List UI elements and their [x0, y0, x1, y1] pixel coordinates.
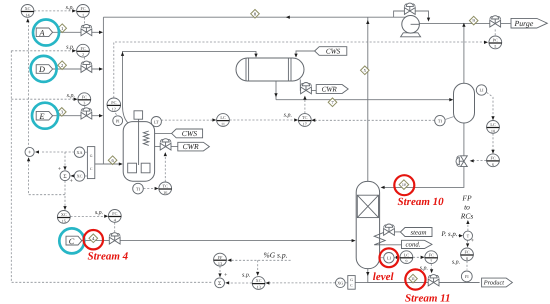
svg-text:Stream 11: Stream 11 — [405, 293, 451, 304]
svg-text:G: G — [90, 154, 93, 158]
svg-text:+: + — [57, 166, 61, 172]
svg-text:+: + — [69, 179, 73, 185]
svg-text:LT: LT — [154, 119, 159, 124]
svg-text:to: to — [464, 203, 470, 212]
svg-text:C: C — [69, 237, 75, 246]
svg-text:15: 15 — [62, 218, 66, 223]
svg-text:Stream 10: Stream 10 — [398, 196, 445, 208]
svg-text:PC: PC — [493, 38, 498, 43]
svg-text:+: + — [470, 238, 474, 244]
svg-text:FF: FF — [218, 255, 223, 260]
svg-text:XC: XC — [25, 6, 31, 11]
svg-text:Σ: Σ — [63, 174, 66, 180]
svg-text:%G s.p.: %G s.p. — [264, 250, 288, 259]
svg-text:PC: PC — [111, 100, 116, 105]
svg-text:LC: LC — [220, 115, 226, 120]
svg-text:TC: TC — [163, 184, 169, 189]
svg-text:FC: FC — [80, 6, 85, 11]
svg-text:13: 13 — [218, 261, 222, 266]
svg-text:s.p.: s.p. — [242, 272, 250, 278]
svg-text:7: 7 — [430, 259, 432, 264]
svg-text:3: 3 — [83, 101, 85, 106]
svg-text:E: E — [38, 112, 44, 121]
svg-text:D: D — [38, 65, 45, 74]
svg-text:A: A — [38, 29, 45, 38]
svg-text:XC: XC — [61, 212, 67, 217]
svg-text:G: G — [350, 278, 353, 282]
svg-text:RCs: RCs — [460, 211, 474, 220]
svg-text:10: 10 — [491, 128, 495, 133]
svg-text:8: 8 — [466, 256, 468, 261]
svg-text:XA: XA — [76, 150, 82, 155]
svg-text:C: C — [350, 284, 353, 288]
svg-text:LC: LC — [404, 252, 410, 257]
svg-text:FC: FC — [112, 211, 117, 216]
svg-text:FC: FC — [464, 250, 469, 255]
svg-text:cond.: cond. — [406, 242, 421, 249]
svg-text:CWR: CWR — [183, 142, 199, 151]
svg-text:FI: FI — [465, 274, 469, 279]
svg-text:s.p.: s.p. — [66, 45, 74, 51]
svg-text:s.p.: s.p. — [66, 5, 74, 11]
svg-text:TI: TI — [438, 118, 443, 123]
svg-text:Σ: Σ — [218, 281, 221, 287]
svg-text:2: 2 — [82, 52, 84, 57]
svg-text:12: 12 — [112, 106, 116, 111]
svg-text:11: 11 — [221, 122, 225, 127]
svg-text:1: 1 — [82, 12, 84, 17]
svg-text:s.p.: s.p. — [284, 113, 292, 119]
svg-text:Purge: Purge — [514, 19, 534, 28]
svg-text:PI: PI — [116, 118, 120, 123]
svg-text:Stream 4: Stream 4 — [88, 250, 129, 262]
svg-text:s.p.: s.p. — [67, 93, 75, 99]
svg-text:6: 6 — [492, 162, 494, 167]
svg-text:CWS: CWS — [326, 47, 341, 55]
svg-text:CWS: CWS — [182, 129, 197, 138]
svg-text:10: 10 — [402, 182, 406, 187]
svg-text:CWR: CWR — [322, 85, 338, 93]
svg-text:17: 17 — [303, 122, 307, 127]
svg-text:FP: FP — [461, 194, 472, 203]
svg-text:s.p.: s.p. — [95, 210, 103, 216]
svg-text:5: 5 — [494, 44, 496, 49]
svg-text:P. s.p.: P. s.p. — [440, 231, 457, 238]
svg-text:LI: LI — [387, 255, 392, 260]
svg-text:LI: LI — [480, 88, 485, 93]
svg-text:T: T — [467, 233, 470, 238]
svg-text:LC: LC — [490, 122, 496, 127]
svg-text:13: 13 — [257, 285, 261, 290]
svg-text:level: level — [373, 271, 395, 283]
svg-text:XC: XC — [256, 278, 262, 283]
svg-text:Product: Product — [483, 280, 505, 287]
svg-text:16: 16 — [163, 190, 167, 195]
svg-text:FC: FC — [82, 94, 87, 99]
svg-text:steam: steam — [410, 229, 426, 236]
svg-text:s.p.: s.p. — [452, 259, 460, 265]
svg-text:TI: TI — [136, 186, 141, 191]
svg-text:XC: XC — [77, 174, 83, 179]
svg-text:XG: XG — [337, 281, 343, 286]
svg-text:11: 11 — [411, 276, 415, 281]
svg-text:FC: FC — [80, 46, 85, 51]
svg-text:FC: FC — [429, 252, 434, 257]
svg-text:+: + — [224, 272, 228, 278]
svg-text:FC: FC — [490, 156, 495, 161]
svg-text:TC: TC — [302, 115, 308, 120]
svg-text:9: 9 — [405, 259, 407, 264]
